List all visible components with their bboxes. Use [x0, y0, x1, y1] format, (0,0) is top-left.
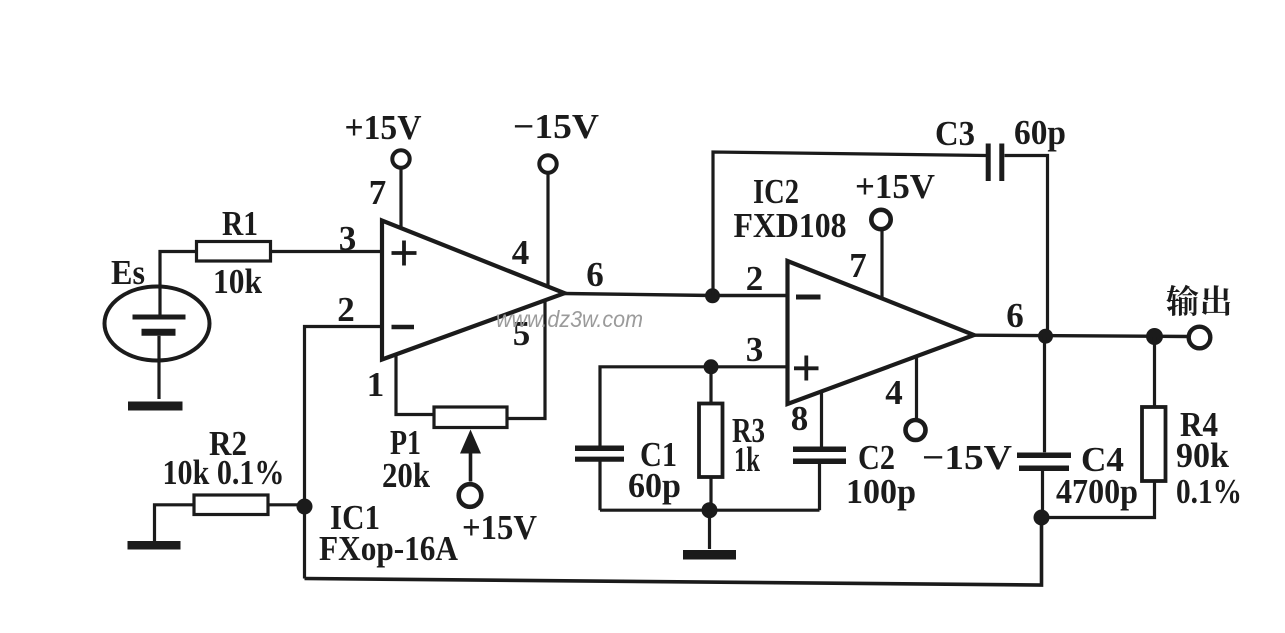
svg-text:60p: 60p — [1014, 113, 1066, 152]
svg-text:100p: 100p — [846, 472, 916, 511]
svg-text:FXop-16A: FXop-16A — [319, 529, 459, 568]
svg-text:−15V: −15V — [513, 107, 599, 146]
svg-text:4: 4 — [512, 233, 530, 272]
svg-text:7: 7 — [369, 173, 387, 212]
svg-text:6: 6 — [586, 255, 604, 294]
svg-text:2: 2 — [746, 259, 764, 298]
svg-text:60p: 60p — [628, 466, 681, 505]
svg-text:www.dz3w.com: www.dz3w.com — [496, 306, 643, 332]
svg-text:−15V: −15V — [922, 438, 1012, 477]
svg-text:10k 0.1%: 10k 0.1% — [163, 453, 285, 492]
svg-text:C3: C3 — [935, 114, 975, 153]
svg-text:FXD108: FXD108 — [734, 206, 847, 245]
svg-text:7: 7 — [849, 246, 867, 285]
svg-text:3: 3 — [746, 330, 764, 369]
svg-text:0.1%: 0.1% — [1176, 472, 1242, 511]
svg-text:4: 4 — [885, 373, 903, 412]
svg-text:Es: Es — [111, 253, 145, 292]
svg-text:2: 2 — [337, 290, 355, 329]
svg-text:90k: 90k — [1176, 436, 1230, 475]
svg-text:8: 8 — [791, 399, 809, 438]
svg-text:1k: 1k — [734, 440, 760, 479]
svg-text:+15V: +15V — [462, 508, 537, 547]
svg-text:6: 6 — [1006, 296, 1024, 335]
svg-text:3: 3 — [339, 219, 357, 258]
svg-text:+15V: +15V — [855, 167, 935, 206]
svg-text:1: 1 — [367, 365, 385, 404]
svg-text:R1: R1 — [222, 204, 258, 243]
svg-text:+15V: +15V — [345, 108, 422, 147]
svg-text:20k: 20k — [382, 456, 430, 495]
svg-text:4700p: 4700p — [1056, 472, 1138, 511]
svg-text:10k: 10k — [213, 262, 262, 301]
